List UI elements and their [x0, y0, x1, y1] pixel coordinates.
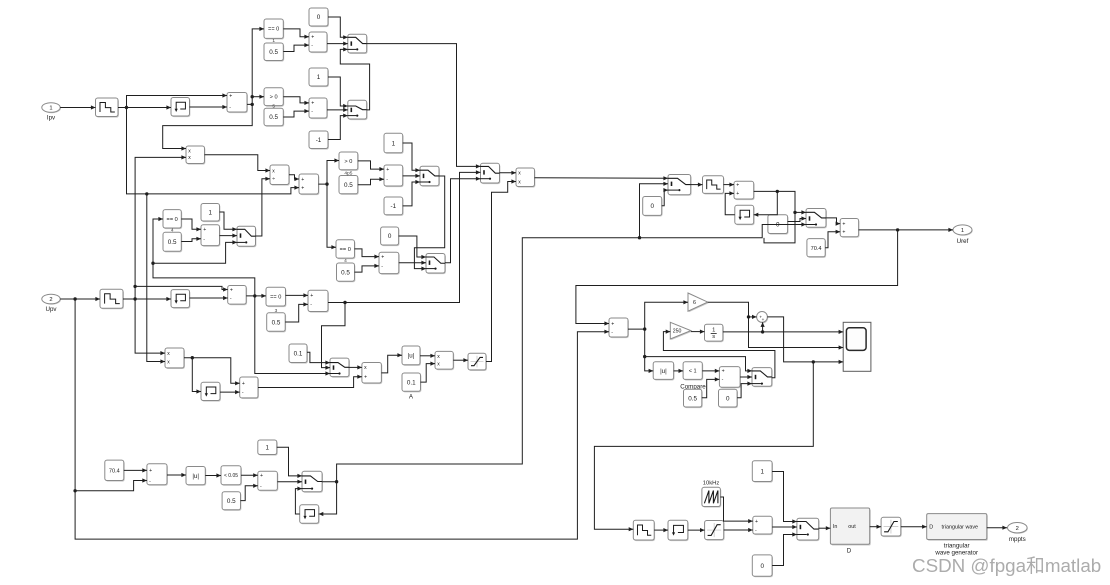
svg-text:D: D — [929, 525, 933, 531]
wire Sum5 to Switch3 mid — [220, 234, 238, 238]
wire 0.1 A to Switch7 top — [307, 352, 330, 364]
svg-text:triangular: triangular — [944, 543, 970, 550]
wire abs B to <1 — [674, 369, 684, 373]
compare <1 — [683, 362, 703, 381]
sum Sum2 — [309, 32, 328, 53]
svg-text:+: + — [736, 182, 739, 188]
svg-text:0.5: 0.5 — [269, 49, 278, 56]
wire 0.5 H to Sum10 minus — [285, 302, 308, 322]
svg-text:6: 6 — [693, 300, 696, 306]
saturation Sat2 — [705, 521, 725, 541]
svg-text:1: 1 — [760, 468, 764, 475]
svg-text:|u|: |u| — [660, 368, 667, 375]
svg-text:< 1: < 1 — [689, 369, 697, 375]
svg-text:+: + — [755, 519, 758, 525]
svg-text:0: 0 — [317, 14, 321, 21]
svg-text:+: + — [311, 101, 314, 107]
sum Sum16 — [147, 464, 168, 486]
wire Sum3 to Switch2 mid — [327, 108, 348, 112]
wire Sum1 out riser to ==0 A — [247, 27, 264, 106]
svg-text:-: - — [260, 484, 262, 490]
wire Switch2 out to Switch1 bottom — [340, 47, 369, 110]
svg-text:0.5: 0.5 — [227, 498, 236, 505]
svg-text:== 0: == 0 — [268, 27, 279, 33]
wire Sum9 out to Sum11 bottom — [258, 375, 362, 388]
constant 70.4 A — [807, 239, 826, 258]
sum Sum9 — [240, 377, 259, 399]
svg-text:+: + — [242, 381, 245, 387]
svg-text:+: + — [381, 254, 384, 260]
wire const0 to Switch1 top — [328, 17, 348, 39]
wire sawtooth to Sum18 plus — [720, 497, 752, 523]
wire Sum13 to Uref outport — [859, 228, 953, 232]
inport Upv (2) — [42, 294, 61, 305]
wire Sum14 out to gain6 — [628, 300, 688, 331]
constant 0 L — [752, 555, 773, 577]
wire stub to Switch9 top — [795, 210, 806, 214]
wire 0.5 C to Sum6 minus — [358, 177, 384, 185]
wire Uref feedback to Sum14 plus — [576, 230, 898, 326]
svg-text:-: - — [381, 264, 383, 270]
wire Upv down to Sum14 minus — [73, 299, 609, 539]
wire Prod3 to Switch8 top — [535, 176, 669, 180]
wire UD3 to Sum9 minus — [220, 390, 240, 394]
svg-text:-: - — [230, 296, 232, 302]
switch Switch11 — [302, 471, 323, 493]
wire RT1 to UD1 — [118, 105, 171, 109]
unit delay UD1 — [171, 98, 190, 118]
sum Sum18 — [753, 516, 773, 535]
svg-text:+: + — [301, 185, 304, 191]
svg-text:+: + — [230, 287, 233, 293]
svg-text:250: 250 — [673, 329, 682, 335]
wire 0.5 F to Sum5 minus — [181, 237, 201, 242]
svg-text:-: - — [611, 330, 613, 336]
wire Ipv long line to Sum4 — [127, 108, 300, 196]
svg-text:10kHz: 10kHz — [703, 480, 720, 486]
switch Switch3 — [237, 226, 256, 247]
svg-text:1: 1 — [49, 106, 52, 112]
sum Sum14 — [609, 318, 629, 338]
switch Switch12 — [797, 518, 820, 541]
constant 1 C — [309, 68, 329, 87]
wire generator to mppts outport — [987, 526, 1007, 530]
compare >0 C — [339, 152, 359, 171]
wire abs A to Prod5 top — [420, 354, 435, 358]
svg-text:-: - — [310, 302, 312, 308]
svg-text:+: + — [364, 375, 367, 381]
switch Switch2 — [348, 100, 368, 120]
wire circle sum out to scope in3 — [767, 317, 843, 364]
svg-text:Ipv: Ipv — [47, 115, 56, 122]
wire Sum10 branch to Switch7 mid — [322, 303, 346, 370]
svg-text:0: 0 — [650, 203, 654, 210]
svg-text:+: + — [842, 221, 845, 227]
svg-text:-: - — [311, 109, 313, 115]
svg-text:+: + — [311, 35, 314, 41]
svg-text:3: 3 — [275, 308, 278, 314]
svg-text:0: 0 — [760, 563, 764, 570]
wire UD2 to Sum8 minus — [190, 296, 228, 300]
svg-text:2: 2 — [49, 297, 52, 303]
wire Sum14 down to abs B — [643, 329, 653, 373]
wire Sum12 out wrap — [754, 190, 797, 243]
wire Sum7 to Switch5 mid — [399, 261, 426, 265]
constant 1 G — [201, 204, 220, 223]
wire branch to Switch3 bottom — [153, 240, 237, 263]
sum Sum5 — [201, 225, 220, 247]
scope — [843, 322, 871, 371]
wire 0.1 B to Prod5 bottom — [421, 362, 436, 383]
wire Switch11 branch to UD5 input — [319, 482, 337, 516]
wire ==0 G to Sum10 plus — [286, 293, 309, 297]
svg-text:Uref: Uref — [957, 238, 969, 245]
wire Prod2 to Sum4 plus — [289, 175, 299, 181]
sum junction circle — [757, 312, 769, 324]
svg-text:70.4: 70.4 — [109, 469, 120, 475]
wire Switch8 to RT3 — [691, 183, 703, 187]
unit delay UD4 flipped — [735, 205, 755, 225]
wire Sum8 out to ==0 G — [246, 294, 266, 298]
rate transition RT3 — [703, 176, 725, 195]
subsystem triangular wave generator — [927, 514, 988, 541]
product Prod2 divide — [270, 165, 290, 186]
wire 70.4 A to Sum13 plus2 — [825, 230, 840, 248]
wire const1 G to Switch3 top — [220, 212, 238, 231]
svg-text:== 0: == 0 — [270, 295, 281, 301]
wire 0 J1 to Switch8 bottom — [662, 188, 668, 206]
svg-text:-1: -1 — [316, 137, 322, 144]
svg-text:-: - — [311, 43, 313, 49]
wire >0 C to Sum6 plus — [358, 161, 384, 171]
svg-text:1: 1 — [266, 444, 270, 451]
unit delay UD6 — [668, 520, 689, 541]
switch Switch9 — [806, 209, 827, 229]
svg-text:< 0.05: < 0.05 — [224, 473, 238, 479]
svg-text:triangular wave: triangular wave — [941, 525, 978, 531]
svg-text:+: + — [386, 167, 389, 173]
svg-text:-: - — [722, 377, 724, 383]
outport Uref (1) — [953, 225, 973, 236]
constant -1 B — [384, 197, 404, 216]
wire Sum6 to Switch4 mid — [403, 174, 420, 178]
saturation Sat1 — [468, 353, 487, 371]
wire Sum18 to Switch12 mid — [772, 525, 797, 529]
unit delay UD2 — [171, 290, 190, 309]
wire riser branch to Prod1 top — [163, 104, 253, 150]
product Prod5 — [435, 351, 454, 370]
svg-text:+: + — [203, 227, 206, 233]
svg-text:+: + — [229, 93, 232, 99]
svg-text:0: 0 — [726, 395, 730, 402]
wire const1 C to Switch2 top — [328, 77, 348, 108]
wire 0.5 A to Sum2 minus — [283, 43, 309, 52]
wire Switch5 out to Switch6 bottom — [445, 177, 481, 263]
svg-text:+: + — [762, 317, 765, 322]
switch Switch10 — [752, 368, 773, 388]
svg-text:2: 2 — [1016, 526, 1019, 532]
abs |u| B — [653, 362, 674, 381]
sum Sum8 — [228, 286, 247, 306]
sum Sum10 — [308, 290, 329, 312]
gain 6 — [688, 293, 709, 312]
wire Switch7 out to Sum11 top — [349, 365, 362, 369]
wire Upv branch to Sum16 minus — [75, 478, 147, 490]
compare ==0 A — [264, 19, 284, 40]
inport Ipv (1) — [42, 103, 61, 114]
wire const1 E to Switch11 top — [277, 447, 302, 478]
svg-text:== 0: == 0 — [167, 217, 178, 223]
svg-text:out: out — [848, 524, 856, 530]
svg-text:4: 4 — [344, 258, 347, 264]
wire RT2 up to Prod1 bottom — [133, 155, 186, 299]
sawtooth source 10kHz — [702, 487, 721, 507]
wire Sum15 to Switch10 mid — [740, 375, 752, 379]
wire RT2 to UD2 — [123, 297, 171, 301]
switch Switch5 — [426, 254, 446, 275]
wire const1 D to Switch4 top — [403, 143, 420, 172]
svg-text:+: + — [842, 230, 845, 236]
svg-text:+: + — [611, 321, 614, 327]
unit delay UD3 — [201, 382, 221, 401]
constant 0 J2 — [768, 215, 789, 235]
constant 0 K — [719, 389, 739, 408]
wire abs C to compare 0.05 — [205, 473, 221, 477]
compare >0 B — [264, 88, 284, 107]
wire gain250 to integrator — [691, 330, 705, 334]
svg-text:0.1: 0.1 — [294, 350, 303, 357]
outport mppts (2) — [1008, 523, 1028, 534]
abs |u| A — [402, 346, 421, 366]
wire subsystem D to Sat3 — [870, 525, 881, 529]
wire const0 L to Switch12 bottom — [772, 532, 797, 565]
svg-text:0.5: 0.5 — [344, 182, 353, 189]
wire const1 F to Switch12 top — [772, 472, 797, 524]
svg-text:-: - — [149, 478, 151, 484]
svg-text:|u|: |u| — [408, 353, 415, 360]
sum Sum4 — [299, 174, 319, 195]
wire Sum17 to Switch11 mid — [277, 480, 302, 484]
wire RT2 down to Prod4 top — [135, 299, 165, 355]
wire 0.5 E to Sum7 minus — [355, 264, 380, 272]
saturation Sat3 — [881, 517, 902, 537]
svg-text:5: 5 — [272, 103, 275, 109]
svg-text:-: - — [386, 177, 388, 183]
svg-text:CSDN @fpga和matlab: CSDN @fpga和matlab — [912, 555, 1101, 576]
constant 0.5 A — [264, 38, 284, 61]
wire Switch6 out to Prod3 — [500, 171, 517, 175]
wire >0 B to Sum3 plus — [283, 97, 309, 105]
wire 0.5 J to Sum17 minus — [241, 484, 258, 501]
abs |u| C — [186, 467, 206, 486]
subsystem D — [830, 508, 870, 546]
wire Upv to RT2 — [60, 297, 100, 301]
wire Sum11 to abs A — [381, 353, 402, 373]
wire Sum12 branch to UD4 input — [754, 191, 778, 216]
svg-text:+: + — [722, 369, 725, 375]
rate transition RT1 — [96, 98, 119, 118]
wire Sum8 up branch to ==0 F — [151, 217, 255, 296]
svg-text:0.5: 0.5 — [341, 269, 350, 276]
wire integrator to scope in1 — [723, 330, 843, 334]
wire Sum2 to Switch1 mid — [327, 42, 348, 46]
wire const-1 to Switch2 bottom — [328, 114, 348, 140]
wire const0 B to Switch5 top — [399, 236, 426, 259]
wire ==0 A to Sum2 plus — [283, 29, 309, 39]
wire branch to Switch8 mid — [640, 182, 669, 238]
svg-text:0: 0 — [388, 233, 392, 240]
svg-text:> 0: > 0 — [270, 95, 278, 101]
constant -1 — [309, 131, 329, 150]
gain 250 — [670, 322, 692, 340]
wire const-1 B to Switch4 bottom — [403, 180, 420, 206]
wire stub up to circle sum bottom — [761, 322, 765, 332]
wire Sat3 to triangular generator — [901, 525, 927, 529]
svg-text:0.5: 0.5 — [272, 319, 281, 326]
wire RT4 to UD6 — [654, 528, 668, 532]
wire UD1 to Sum1 minus — [190, 105, 228, 109]
svg-text:-: - — [755, 528, 757, 534]
wire 0 J2 to Switch9 mid — [788, 216, 806, 221]
svg-text:+: + — [301, 177, 304, 183]
constant 0 J1 — [643, 197, 663, 217]
svg-text:+: + — [149, 468, 152, 474]
wire Switch4 out to Switch5 bottom — [414, 176, 444, 271]
wire Switch1 out to Switch6 top — [367, 44, 481, 169]
wire branch down to Prod4 bottom — [147, 194, 165, 364]
svg-text:0.5: 0.5 — [168, 239, 177, 246]
svg-text:-: - — [242, 390, 244, 396]
svg-text:-: - — [229, 105, 231, 111]
wire 0.5 I to Sum15 minus — [702, 377, 720, 398]
constant 1 D — [384, 133, 404, 154]
compare ==0 G — [266, 287, 286, 307]
wire compare to Sum17 plus — [241, 473, 258, 477]
product Prod4 — [165, 348, 185, 369]
svg-text:0.1: 0.1 — [407, 379, 416, 386]
switch Switch8 — [668, 175, 692, 196]
wire Switch9 to Sum13 plus — [826, 218, 840, 226]
constant 0.1 B — [402, 373, 421, 392]
wire Ipv to RT1 — [60, 105, 95, 109]
constant 0.5 J — [222, 492, 241, 511]
svg-text:+: + — [260, 473, 263, 479]
wire 70.4 B to Sum16 plus — [124, 468, 147, 472]
svg-text:1: 1 — [208, 209, 212, 216]
svg-text:== 0: == 0 — [340, 247, 351, 253]
constant 0 — [309, 8, 329, 27]
svg-text:+: + — [310, 293, 313, 299]
constant 0.5 F — [163, 228, 182, 253]
compare ==0 E — [336, 240, 355, 259]
wire Prod5 to Sat1 — [453, 358, 468, 362]
sum Sum13 — [840, 219, 859, 238]
product Sum11 — [362, 363, 382, 385]
wire UD4 out to Sum12 plus2 — [725, 191, 735, 214]
svg-text:0.5: 0.5 — [269, 114, 278, 121]
svg-text:4p5: 4p5 — [344, 171, 352, 177]
constant 1 E — [258, 440, 278, 456]
svg-text:1: 1 — [392, 140, 396, 147]
compare <0.05 — [221, 466, 242, 486]
product Prod1 — [186, 146, 205, 165]
wire UD5 out to Switch11 bottom — [295, 487, 302, 515]
wire Prod1 to Prod2 top — [205, 155, 271, 173]
wire 0 K to Switch10 bottom — [737, 382, 752, 398]
wire Sum16 to abs C — [167, 473, 186, 477]
sum Sum15 — [719, 367, 741, 389]
sum Sum6 — [384, 165, 404, 187]
wire Switch3 out to Prod2 bottom — [256, 177, 271, 236]
svg-text:In: In — [833, 524, 838, 530]
constant 0.1 A — [289, 344, 308, 364]
wire branch to Sum8 plus — [135, 286, 228, 291]
wire 0.5 B to Sum3 minus — [283, 109, 309, 117]
sum Sum17 — [258, 471, 279, 491]
constant 0 B — [381, 227, 400, 246]
wire Sat2 to Sum18 minus — [724, 528, 753, 532]
wire Prod4 branch to Sum9 plus — [192, 358, 239, 386]
wire Sum10 out to Switch6 mid — [328, 170, 481, 304]
constant 0.5 C — [339, 171, 359, 195]
sum Sum12 — [734, 181, 755, 200]
svg-text:Upv: Upv — [45, 306, 57, 313]
wire Sum4 branch to ==0 E — [327, 184, 336, 249]
svg-text:mppts: mppts — [1009, 536, 1026, 543]
wire RT3 to Sum12 plus — [724, 183, 735, 187]
integrator 1/s — [705, 324, 724, 342]
wire ==0 E to Sum7 plus — [355, 249, 380, 259]
wire Switch12 to subsystem D — [819, 526, 831, 530]
switch Switch6 — [481, 163, 501, 184]
wire PWM feedback down to RT4 — [594, 362, 813, 531]
svg-text:-: - — [203, 237, 205, 243]
constant 0.5 I — [684, 389, 703, 408]
rate transition RT2 — [100, 289, 124, 309]
rate transition RT4 — [633, 520, 655, 541]
unit delay UD5 flipped — [300, 505, 320, 525]
wire Sum14 branch to Switch10 top — [645, 357, 752, 373]
wire UD6 to Sat2 — [688, 528, 705, 532]
svg-text:+: + — [736, 191, 739, 197]
wire <1 to Sum15 plus — [702, 369, 719, 373]
svg-text:|u|: |u| — [192, 473, 199, 480]
svg-text:70.4: 70.4 — [811, 246, 822, 252]
sum Sum3 — [309, 98, 328, 119]
svg-text:0.5: 0.5 — [688, 395, 697, 402]
svg-text:4: 4 — [171, 228, 174, 234]
svg-text:> 0: > 0 — [344, 159, 352, 165]
switch Switch1 — [348, 34, 368, 54]
constant 70.4 B — [105, 460, 125, 482]
svg-text:1: 1 — [712, 327, 715, 333]
switch Switch4 — [420, 166, 440, 187]
constant 0.5 B — [264, 103, 284, 126]
wire Sum8 down branch to Switch7 bottom — [255, 296, 330, 376]
svg-text:s: s — [712, 334, 715, 340]
svg-text:1: 1 — [272, 38, 275, 44]
svg-text:1: 1 — [317, 74, 321, 81]
wire gain6 to scope in2 — [708, 302, 844, 349]
svg-text:1: 1 — [961, 228, 964, 234]
svg-text:-1: -1 — [391, 203, 397, 210]
wire stub to circle sum — [749, 315, 757, 319]
product Prod3 — [516, 168, 535, 188]
sum Sum7 — [379, 252, 400, 275]
wire Sum4 out riser — [319, 158, 340, 185]
constant 0.5 H — [267, 308, 286, 332]
wire Sat1 to Prod3 bottom — [486, 179, 516, 361]
